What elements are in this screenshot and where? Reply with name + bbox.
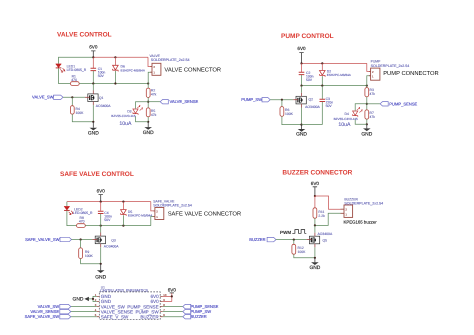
svg-text:BUZZER: BUZZER [249, 237, 265, 242]
junction at 6V0/C1 top [92, 56, 94, 58]
label BUZZER (connector ref) [344, 197, 358, 201]
value BZV55-C3V0-115 [111, 114, 135, 118]
junction Q5 source/R12 [314, 257, 316, 259]
value 10uA [119, 121, 132, 127]
pin 1 (pump conn) [372, 74, 374, 78]
label LED1 [67, 64, 76, 68]
resistor R5 [146, 108, 150, 117]
pin 2 (valve conn) [153, 65, 155, 69]
global label bubble BUZZER [267, 237, 276, 241]
label PUMP_SENSE (bottom) [190, 304, 218, 309]
junction GND join [92, 298, 94, 300]
wire R1 to C1 bottom [79, 83, 93, 85]
svg-text:D3: D3 [127, 109, 131, 113]
wire BUZZER to gate [276, 239, 307, 241]
capacitor C4 [98, 202, 104, 226]
value ESH2PC-M3/84A [327, 73, 352, 77]
value AO3400A (Q2) [305, 105, 320, 109]
pin name VALVE_SENSE (U1 pin4) [101, 309, 133, 314]
pin name GND (U1 pin2) [101, 299, 112, 304]
svg-text:PUMP_SW: PUMP_SW [241, 97, 262, 102]
value CASTELLATED_PNEUMATIC [100, 289, 148, 293]
wire GND pins join (left) [89, 296, 97, 301]
pin stubs right (U1) [160, 296, 163, 316]
value AO3400A (Q5) [318, 232, 333, 236]
label D4 [345, 112, 349, 116]
wire 6V0 rail (safe valve, red) [67, 201, 151, 203]
wire R5 bottom [147, 117, 149, 122]
label R8 [80, 216, 84, 220]
wire pump mid rail [302, 85, 367, 87]
title BUZZER CONNECTOR [282, 169, 352, 176]
wire VALVE_SENSE (U1 left) [71, 311, 97, 313]
pin name BUZZER (U1 pin6) [140, 314, 159, 319]
label SAFE_VALVE [153, 200, 175, 204]
svg-text:GND: GND [309, 265, 320, 271]
svg-text:50V: 50V [98, 74, 105, 78]
svg-text:PUMP CONNECTOR: PUMP CONNECTOR [383, 70, 439, 77]
svg-text:Q5: Q5 [323, 239, 328, 243]
wire D4 loop [355, 104, 367, 125]
label Q3 [111, 238, 116, 242]
waveform glyph [292, 230, 306, 234]
value AO3400A (Q3) [104, 245, 119, 249]
junction source/R4 [92, 121, 94, 123]
svg-text:VALVE CONTROL: VALVE CONTROL [57, 32, 112, 39]
svg-text:PUMP_SENSE: PUMP_SENSE [389, 101, 417, 106]
connector BUZZER box [341, 205, 353, 217]
svg-text:LED-0805_R: LED-0805_R [67, 68, 87, 72]
label VALVE_SW (bottom) [38, 304, 60, 309]
power 6V0 (valve) [89, 44, 98, 57]
svg-text:SOLDERPLATE_2x2.54: SOLDERPLATE_2x2.54 [344, 202, 383, 206]
junction Q2 source/R6 [300, 124, 302, 126]
value SOLDERPLATE_2x2.54 (pump) [371, 64, 410, 68]
ground GND (Q2) [296, 125, 307, 138]
ground GND (valve divider) [143, 122, 154, 136]
pin 9 (U1) [163, 298, 165, 302]
svg-text:Q2: Q2 [309, 98, 314, 102]
svg-text:SAFE VALVE CONNECTOR: SAFE VALVE CONNECTOR [168, 211, 241, 218]
label PUMP [371, 60, 382, 64]
pin 1 (buzzer conn) [345, 212, 347, 216]
svg-text:ESH2PC-M5/B4A: ESH2PC-M5/B4A [121, 69, 146, 73]
wire LED2 bottom [67, 211, 77, 226]
svg-text:6V0: 6V0 [97, 189, 106, 194]
label R11 [318, 210, 324, 214]
wire R11 stub top (red) [314, 196, 316, 208]
value LED-0805_R [67, 68, 87, 72]
svg-text:2.2k: 2.2k [318, 214, 325, 218]
LED LED2 [64, 206, 73, 214]
svg-text:6V0: 6V0 [168, 288, 177, 293]
junction D6 top [114, 56, 116, 58]
wire D3 loop [136, 102, 149, 122]
transistor Q3 [92, 233, 105, 248]
text PUMP CONNECTOR [383, 70, 439, 77]
wire R3 bottom [366, 97, 368, 110]
wire 6V0 rail (pump, red) [302, 62, 367, 64]
value 100n (C4) [104, 215, 112, 219]
wire Q1 source [92, 105, 94, 122]
label SAFE_VALVE_SW (bottom) [25, 314, 60, 319]
svg-text:KPEG165 buzzer: KPEG165 buzzer [344, 220, 378, 225]
wire VALVE_SW (U1 left) [71, 306, 97, 308]
label D3 [127, 109, 131, 113]
junction C4 bottom / Q3 drain [100, 225, 102, 227]
wire R2 bottom [147, 97, 149, 108]
value 100n [98, 70, 106, 74]
svg-text:AO3400A: AO3400A [318, 232, 333, 236]
value 47k (R7) [370, 115, 376, 119]
svg-text:BZV55-C3V0-115: BZV55-C3V0-115 [334, 117, 358, 121]
power 6V0 (safe valve) [97, 189, 106, 202]
wire R9 bottom to source [81, 259, 101, 264]
resistor R6 [280, 107, 284, 117]
ground GND (Q3) [95, 264, 106, 281]
svg-text:GND: GND [73, 296, 84, 302]
value AO3400A (Q1) [96, 104, 111, 108]
pin name VALVE_SW (U1 pin3) [101, 304, 126, 309]
wire LED top (green) [59, 57, 94, 63]
wire connector pin 1 to mid rail (green) [148, 72, 152, 83]
global label bubble PUMP_SENSE (bottom) [183, 304, 191, 308]
pin name 6V0 (U1 pin9) [151, 299, 160, 304]
svg-text:VALVE_SENSE: VALVE_SENSE [170, 99, 199, 104]
resistor R9 [79, 248, 83, 259]
svg-text:SOLDERPLATE_2x2.54: SOLDERPLATE_2x2.54 [371, 64, 410, 68]
label Q1 [99, 96, 104, 100]
pin name GND (U1 pin1) [101, 294, 112, 299]
svg-text:D4: D4 [345, 112, 349, 116]
svg-text:VALVE_SW: VALVE_SW [32, 94, 54, 99]
zener D3 [133, 105, 143, 115]
wire R4 bottom to source [72, 114, 93, 122]
capacitor C2 [299, 63, 305, 85]
svg-text:Q3: Q3 [111, 238, 116, 242]
text SAFE VALVE CONNECTOR [168, 211, 241, 218]
svg-text:47k: 47k [151, 113, 157, 117]
value SOLDERPLATE_2x2.54 (buzzer) [344, 202, 383, 206]
label R5 [151, 109, 155, 113]
label R7 [370, 111, 374, 115]
label BUZZER (net) [249, 237, 265, 242]
svg-text:6V0: 6V0 [297, 46, 306, 51]
wire 6V0 rail (valve, red) [93, 56, 148, 58]
junction pump sense tap [366, 103, 368, 105]
svg-text:LED-0805_R: LED-0805_R [73, 211, 93, 215]
pin 2 (buzzer conn) [345, 208, 347, 212]
svg-text:BUZZER CONNECTOR: BUZZER CONNECTOR [282, 169, 352, 176]
resistor R3 [365, 88, 369, 97]
label LED2 [74, 207, 83, 211]
junction D6 bottom [114, 82, 116, 84]
pin 1 (safe conn) [156, 215, 158, 219]
label R4 [76, 107, 80, 111]
label D6 [121, 65, 125, 69]
global label bubble VALVE_SENSE [160, 100, 168, 104]
svg-text:10uA: 10uA [119, 121, 132, 127]
label D5 [128, 210, 132, 214]
capacitor C1 [91, 57, 97, 83]
junction R5/D3 bottom [147, 121, 149, 123]
wire rail to safe connector pin 2 (red) [151, 202, 155, 211]
wire Q3 drain [100, 226, 102, 233]
svg-text:GND: GND [143, 130, 154, 136]
title VALVE CONTROL [57, 32, 112, 39]
value 10uA (D4) [338, 122, 351, 128]
resistor R2 [146, 88, 150, 97]
svg-text:AO3400A: AO3400A [96, 104, 111, 108]
value LED-0805_R (LED2) [73, 211, 93, 215]
label R6 [285, 108, 289, 112]
svg-text:AO3400A: AO3400A [104, 245, 119, 249]
value 220n [326, 100, 334, 104]
label C2 [306, 71, 310, 75]
global label bubble VALVE_SW (bottom) [60, 304, 71, 308]
resistor R7 [365, 110, 369, 119]
svg-text:6V0: 6V0 [311, 181, 320, 186]
svg-text:100K: 100K [85, 254, 94, 258]
label SAFE_VALVE_SW [25, 237, 60, 242]
title PUMP CONTROL [281, 33, 334, 40]
junction C4 top [100, 201, 102, 203]
value ESH2PC-M5/B4A (D5) [128, 214, 153, 218]
pin 7 (U1) [163, 308, 165, 312]
label VALVE_SW [32, 94, 54, 99]
wire PUMP_SW (U1 right) [163, 311, 183, 313]
wire R9 stub [80, 240, 82, 248]
junction R7/D4 bottom [366, 123, 368, 125]
svg-text:100K: 100K [285, 112, 294, 116]
value ESH2PC-M5/B4A [121, 69, 146, 73]
pin 1 (U1) [95, 293, 97, 297]
global label bubble BUZZER (bottom) [183, 315, 191, 319]
svg-text:47k: 47k [370, 115, 376, 119]
value 100K (R9) [85, 254, 94, 258]
global label bubble PUMP_SENSE [380, 102, 388, 106]
value 47k (R5) [151, 113, 157, 117]
wire R4 stub top [71, 97, 73, 105]
label Q2 [309, 98, 314, 102]
svg-text:470: 470 [79, 219, 85, 223]
resistor R11 [313, 208, 317, 218]
label VALVE [150, 54, 161, 58]
junction R12 tap [293, 239, 295, 241]
junction D2 top [321, 62, 323, 64]
connector VALVE box [150, 63, 161, 75]
wire pump connector pin 1 (green) [367, 76, 371, 86]
wire SAFE_VALVE_SW to gate [72, 239, 93, 241]
power 6V0 (buzzer) [311, 181, 320, 196]
LED LED1 [56, 64, 65, 72]
wire Q2 source [301, 108, 303, 125]
pin 5 (U1) [95, 313, 97, 317]
text VALVE CONNECTOR [164, 66, 221, 73]
value SOLDERPLATE_2x2.54 [151, 58, 190, 62]
svg-text:50V: 50V [306, 78, 313, 82]
svg-text:SOLDERPLATE_2x2.54: SOLDERPLATE_2x2.54 [151, 58, 190, 62]
pin 2 (pump conn) [372, 70, 374, 74]
wire 6V0 pins join (right) [163, 293, 172, 302]
ground GND (U1, sideways) [73, 296, 89, 302]
resistor R8 (horizontal) [77, 224, 86, 228]
junction R11 top [314, 195, 316, 197]
value SOLDERPLATE_2x2.54 (safe) [153, 204, 192, 208]
junction sense tap [147, 101, 149, 103]
svg-text:BZV55-C3V0-115: BZV55-C3V0-115 [111, 114, 135, 118]
svg-text:PWM: PWM [280, 230, 291, 235]
label PUMP_SENSE [389, 101, 417, 106]
label PUMP_SW [241, 97, 262, 102]
wire Q2 drain [301, 86, 303, 93]
svg-text:470: 470 [71, 78, 77, 82]
label Q5 [323, 239, 328, 243]
svg-text:ESH2PC-M5/B4A: ESH2PC-M5/B4A [128, 214, 153, 218]
global label bubble VALVE_SENSE (bottom) [60, 309, 71, 313]
pin stubs left (U1) [97, 296, 100, 316]
svg-text:SAFE_VALVE_SW: SAFE_VALVE_SW [25, 237, 60, 242]
wire rail to pump connector pin 2 (red) [367, 63, 371, 71]
text PWM [280, 230, 291, 235]
pin 8 (U1) [163, 303, 165, 307]
junction 6V0 join [171, 295, 173, 297]
global label bubble PUMP_SW [262, 98, 270, 102]
junction pump conn drop [366, 85, 368, 87]
svg-text:SAFE VALVE CONTROL: SAFE VALVE CONTROL [60, 171, 134, 178]
global label bubble PUMP_SW (bottom) [183, 309, 191, 313]
transistor Q1 [85, 90, 98, 105]
svg-text:BUZZER: BUZZER [190, 314, 206, 319]
wire PUMP_SENSE (U1 right) [163, 306, 183, 308]
svg-text:100K: 100K [298, 250, 307, 254]
pin 4 (U1) [95, 308, 97, 312]
label R1 [72, 75, 76, 79]
wire R11 bottom [314, 218, 316, 225]
junction C1 bottom / Q1 drain [92, 82, 94, 84]
wire safe bottom rail [85, 225, 151, 227]
svg-text:47k: 47k [370, 92, 376, 96]
svg-text:50V: 50V [326, 104, 333, 108]
zener D4 [353, 107, 363, 117]
wire PUMP_SW to gate [270, 99, 293, 101]
junction R6 tap [281, 99, 283, 101]
capacitor C3 [320, 86, 326, 125]
label D2 [327, 69, 331, 73]
label VALVE_SENSE [170, 99, 199, 104]
junction connector pin1 drop [147, 82, 149, 84]
value 50V [98, 74, 105, 78]
pin 3 (U1) [95, 303, 97, 307]
wire R6 stub [281, 100, 283, 107]
resistor R1 (horizontal) [70, 82, 79, 86]
svg-text:6V0: 6V0 [89, 44, 98, 49]
wire mid rail (drain net) [93, 83, 148, 85]
wire C3 bottom join [302, 124, 323, 126]
global label bubble SAFE_VALVE_SW [60, 237, 72, 241]
pin 2 (safe conn) [156, 209, 158, 213]
label U1 [101, 285, 105, 289]
wire R2 stub [147, 84, 149, 89]
label BUZZER (bottom) [190, 314, 206, 319]
resistor R12 [292, 244, 296, 254]
junction D5 bottom [122, 225, 124, 227]
wire Q5 source [314, 247, 316, 257]
pin name PUMP_SENSE (U1 pin8) [127, 304, 158, 309]
svg-text:PUMP: PUMP [371, 60, 382, 64]
value 2.2k [318, 214, 325, 218]
value 100n (C2) [306, 74, 314, 78]
wire safe connector pin 1 (green) [151, 217, 155, 226]
label C1 [98, 67, 102, 71]
svg-text:AO3400A: AO3400A [305, 105, 320, 109]
value 47k (R2) [151, 93, 157, 97]
pin name SAFE_V_SW (U1 pin5) [101, 314, 129, 319]
svg-text:VALVE CONNECTOR: VALVE CONNECTOR [164, 66, 221, 73]
label R3 [370, 88, 374, 92]
label R2 [151, 89, 155, 93]
value BZV55-C3V0-115 (D4) [334, 117, 358, 121]
pin name 6V0 (U1 pin10) [151, 294, 160, 299]
svg-text:SAFE_V_SW: SAFE_V_SW [101, 314, 129, 319]
label C3 [326, 97, 330, 101]
junction C2 top [300, 62, 302, 64]
svg-text:ESH2PC-M3/84A: ESH2PC-M3/84A [327, 73, 352, 77]
wire rail to connector pin 2 (red) [148, 57, 152, 66]
junction Q2 drain [300, 85, 302, 87]
label R9 [85, 250, 89, 254]
connector U1 dashed box [99, 292, 160, 319]
junction R4 tap [71, 96, 73, 98]
pin 1 (valve conn) [153, 71, 155, 75]
svg-text:Q1: Q1 [99, 96, 104, 100]
pin 6 (U1) [163, 313, 165, 317]
wire sense tap to label [148, 101, 160, 103]
title SAFE VALVE CONTROL [60, 171, 134, 178]
wire R12 bottom to source [294, 254, 315, 258]
power 6V0 (U1) [168, 288, 177, 293]
junction R9 tap [80, 238, 82, 240]
junction D5 top [122, 201, 124, 203]
svg-text:10uA: 10uA [338, 122, 351, 128]
value 47k (R3) [370, 92, 376, 96]
wire pump sense tap to label [367, 103, 380, 105]
svg-text:BUZZER: BUZZER [140, 314, 159, 319]
ground GND (Q5) [309, 258, 320, 271]
connector SAFE_VALVE box [153, 208, 164, 220]
wire LED2 drop [66, 202, 68, 206]
svg-text:SAFE_VALVE_SW: SAFE_VALVE_SW [25, 314, 60, 319]
wire R12 stub [293, 240, 295, 245]
diode D6 [113, 57, 119, 83]
global label bubble VALVE_SW [54, 95, 63, 99]
label R12 [298, 246, 304, 250]
wire buzzer pin 1 to drain (green) [315, 213, 341, 225]
text KPEG165 buzzer [344, 220, 378, 225]
value 50V (C4) [104, 218, 111, 222]
value 50V (C3) [326, 104, 333, 108]
junction Q3 source/R9 [100, 263, 102, 265]
wire R7 bottom [366, 119, 368, 124]
svg-text:50V: 50V [104, 218, 111, 222]
wire SAFE_V_SW (U1 left) [71, 316, 97, 318]
svg-text:GND: GND [95, 275, 106, 281]
label C4 [104, 211, 108, 215]
diode D5 [121, 202, 127, 226]
value 470 [71, 78, 77, 82]
value 100K [76, 111, 85, 115]
wire Q1 drain [92, 84, 94, 91]
